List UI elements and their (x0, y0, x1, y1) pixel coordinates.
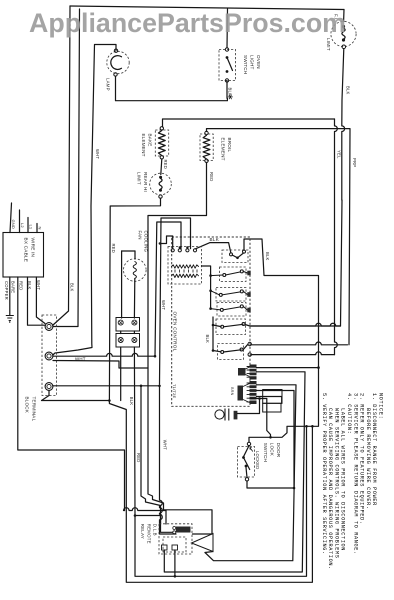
transformer lead dot a (179, 246, 181, 248)
wire terminal2 to transformer neutral (53, 353, 155, 356)
relay R3 contact left (220, 308, 223, 311)
wire top frame horizontal L1 feed (70, 6, 344, 10)
wire WHT into DLB (160, 386, 177, 534)
lamp filament arc (111, 56, 122, 70)
cooling fan left leg (121, 251, 123, 318)
control terminal W3 (248, 342, 251, 345)
door lock switch contact B (245, 465, 248, 468)
wire red broil staircase (148, 491, 212, 534)
relay R3 out stub (243, 306, 247, 310)
svg-text:YEL: YEL (337, 150, 342, 159)
svg-text:OVEN CONTROL: OVEN CONTROL (173, 312, 178, 352)
svg-text:BLK: BLK (70, 283, 75, 292)
relay R5 lead (213, 351, 221, 352)
svg-text:WHT: WHT (36, 280, 41, 290)
rear hi limit dashed envelope (150, 173, 172, 195)
svg-text:RED: RED (163, 160, 168, 169)
relay R1 contact left (223, 273, 226, 276)
fan block1 screw right (132, 320, 137, 325)
connector comb lower (250, 381, 257, 404)
wire feed to broil element (207, 129, 351, 345)
wire broil return RED (148, 163, 207, 492)
wire BLK from FI limit down (342, 49, 345, 200)
wire oven light switch feed from top (226, 9, 229, 48)
svg-text:LIMIT: LIMIT (326, 38, 331, 51)
oven light switch blade (227, 58, 233, 71)
wire W9 into block (257, 397, 282, 404)
svg-text:PRP: PRP (352, 158, 357, 167)
wire terminal2 jog wire (53, 361, 148, 369)
terminal block lug 1 outer (45, 323, 53, 331)
wire W6 (164, 372, 305, 572)
relay R2 lead (211, 291, 220, 295)
svg-text:BLK: BLK (210, 237, 220, 242)
door lock switch terminal bottom (245, 478, 248, 481)
relay R5 blade (223, 350, 241, 352)
wire RED supply (18, 277, 125, 511)
junction wht transformer (159, 242, 161, 244)
svg-text:L1: L1 (29, 225, 34, 230)
relay R2 contact right (240, 290, 243, 293)
relay R0 contact left (230, 253, 233, 256)
junction cascade switch feed (269, 436, 272, 439)
relay R0 box (222, 250, 248, 263)
relay R0 blade (232, 253, 243, 258)
wire second left vertical to terminal 1 (54, 9, 80, 327)
svg-text:BLK: BLK (205, 335, 210, 344)
wire red supply staircase (124, 508, 167, 511)
wire feed to bake element (163, 119, 335, 127)
wire terminal3 WHT line (53, 385, 160, 387)
control terminal W4 (248, 353, 251, 356)
wire rear hi limit return RED (109, 198, 160, 400)
transformer feed a WHT (160, 218, 191, 384)
cooling fan winding (133, 262, 136, 279)
DLB bottom terminal A (162, 545, 168, 550)
fan block2 screw left (118, 338, 123, 343)
bus junction 3 (209, 307, 212, 310)
lamp terminal top (114, 49, 117, 52)
wire comb bottom cascade (251, 399, 271, 438)
transformer terminal 4 (193, 249, 196, 252)
relay R0 pivot (236, 257, 239, 260)
wire BLK transformer to relay contact (196, 243, 231, 253)
relay R1 lead (211, 274, 223, 277)
svg-text:BLK: BLK (129, 397, 134, 406)
terminal block lug 2 outer (45, 352, 53, 360)
F.I limit dashed envelope (331, 21, 356, 46)
terminal block lug 2 inner (47, 354, 51, 358)
wire YEL vertical (335, 119, 338, 355)
svg-text:WHT: WHT (163, 440, 168, 450)
junction motor comb (258, 397, 261, 400)
junction t3 red (140, 385, 143, 388)
svg-text:RED: RED (111, 244, 116, 253)
relay R1 terminal pad (247, 271, 250, 276)
junction W5 (317, 366, 320, 369)
relay R4 lead (213, 325, 221, 327)
auxiliary block C (263, 403, 281, 412)
rear hi limit squiggle (159, 179, 162, 190)
relay lower bus (212, 317, 214, 351)
svg-text:T1/T2E: T1/T2E (172, 384, 177, 398)
lamp L1 dashed envelope (107, 51, 129, 73)
wire L2 lead (19, 210, 21, 233)
rear hi limit contact top (159, 176, 162, 179)
relay R4 contact right (242, 323, 245, 326)
wire bake to rear hi limit (161, 159, 162, 175)
transformer secondary coil (172, 274, 199, 277)
wire N lead (36, 224, 38, 233)
fan connector block 1 (116, 318, 140, 332)
wire lamp bottom to splice (116, 76, 228, 101)
DLB coil triangle (192, 534, 214, 552)
transformer terminal 3 (186, 249, 189, 252)
DLB terminal b (173, 531, 176, 534)
wire BLK long (134, 347, 306, 576)
motor terminal block (234, 411, 238, 420)
junction W8 (293, 487, 296, 490)
transformer terminal 1 (171, 249, 174, 252)
bake element resistor (158, 131, 165, 156)
relay R5 contact left (221, 351, 224, 354)
oven control enclosure (172, 237, 250, 406)
svg-text:AppliancePartsPros.com: AppliancePartsPros.com (29, 8, 346, 38)
relay R5 contact right (240, 348, 243, 351)
relay R4 box (216, 319, 246, 335)
junction dlb b (174, 575, 177, 578)
svg-text:BRN: BRN (230, 387, 234, 396)
broil element terminal top (205, 131, 208, 134)
door lock switch terminal top (247, 442, 250, 445)
motor brackets (225, 409, 229, 421)
wire relay contact to right bus (244, 239, 319, 424)
relay R1 out stub (243, 271, 247, 273)
svg-text:LOCKED: LOCKED (255, 451, 260, 469)
door lock switch contact A (242, 456, 245, 459)
relay R0 contact right (243, 250, 246, 253)
fan block interlink right (133, 331, 135, 334)
wire motor to comb (237, 399, 259, 414)
DLB remote relay box (159, 524, 192, 554)
relay R3 contact right (240, 305, 243, 308)
wire red supply into dlb (165, 511, 167, 525)
wire L1 lead (27, 218, 29, 233)
svg-text:BLK: BLK (27, 281, 32, 290)
wire YEL into control (251, 352, 335, 355)
relay R1 box (220, 267, 247, 282)
relay R3 blade (223, 307, 241, 310)
relay R5 box (218, 344, 244, 360)
svg-text:L2: L2 (20, 223, 25, 228)
DLB terminal a (173, 527, 176, 530)
door lock switch lead bottom (246, 467, 247, 477)
cooling fan bracket (122, 250, 135, 252)
fan block1 screw left (118, 320, 123, 325)
wire DLB terminal B down (174, 550, 176, 576)
junction blk t (134, 514, 137, 517)
cooling fan right leg (134, 251, 136, 259)
wire W5 to door switch feed (257, 367, 319, 369)
wire W8 (257, 391, 295, 489)
junction t3 wht (158, 385, 161, 388)
rear hi limit contact bottom (159, 189, 162, 192)
ground symbol (6, 316, 14, 324)
oven light switch box (219, 50, 236, 81)
wire DLB coil to loop (205, 552, 213, 553)
terminal block box (42, 315, 57, 396)
door lock switch lead top (244, 446, 249, 457)
svg-text:WHT: WHT (161, 300, 166, 310)
svg-text:BLK: BLK (265, 252, 270, 261)
broil element box (200, 134, 213, 161)
oven light switch contact B (226, 70, 229, 73)
cooling fan bottom leg (133, 279, 135, 319)
broil element terminal bottom (205, 159, 208, 162)
relay R3 terminal pad (247, 308, 250, 313)
relay R1 blade (226, 272, 241, 275)
lower bus junction 2 (212, 349, 215, 352)
wire terminal3 down branch (42, 391, 110, 401)
wire W7 (205, 385, 296, 561)
bake element terminal bottom (160, 156, 163, 159)
wire-in-bx-cable box (3, 233, 44, 278)
bus junction 2 (209, 289, 212, 292)
FI limit bimetal squiggle (342, 28, 345, 39)
relay R5 out (243, 344, 248, 350)
FI limit terminal bottom (342, 45, 346, 49)
relay R2 box (216, 288, 246, 302)
relay R4 out (245, 323, 341, 326)
svg-text:RED: RED (19, 281, 24, 290)
terminal block lug 1 inner (47, 324, 51, 328)
svg-text:WHT: WHT (95, 149, 100, 159)
relay R2 blade (222, 292, 241, 295)
wire to FI limit (343, 10, 345, 22)
wire left vertical BLK L1 drop to terminal block (53, 6, 70, 325)
DLB bottom terminal B (172, 545, 178, 550)
relay R4 contact left (221, 325, 224, 328)
wire blk t branch (135, 516, 173, 533)
junction blk loop top (305, 425, 308, 428)
relay R3 lead (211, 309, 221, 310)
broil element resistor (203, 135, 210, 159)
connector plug upper (238, 368, 246, 376)
junction t2 neutral (154, 355, 157, 358)
wire GND lead (10, 203, 12, 233)
DLB resistor element (176, 527, 191, 533)
svg-text:RED: RED (209, 172, 214, 181)
wire bare copper ground lead (9, 277, 11, 316)
door lock motor (215, 410, 224, 419)
relay R3 box (217, 303, 246, 317)
transformer primary coil (172, 265, 199, 268)
wire t3 red staircase (141, 386, 161, 524)
wire door switch bottom (247, 481, 294, 488)
junction outer loop top (311, 425, 314, 428)
connector plug lower (238, 386, 244, 401)
fan block2 screw right (132, 338, 137, 343)
transformer feed stub 1 (160, 236, 173, 249)
oven light switch terminal top (225, 48, 228, 51)
wire red jog to loop (109, 401, 312, 583)
wire PRP into control (251, 342, 348, 345)
transformer feed b neutral (155, 222, 181, 356)
transformer terminal 2 (178, 249, 181, 252)
locked arrow (250, 447, 253, 451)
splice asterisk (228, 95, 233, 100)
wire WHT supply (36, 277, 45, 324)
connector comb upper (250, 365, 257, 380)
transformer core hatch (175, 270, 197, 273)
lamp terminal bottom (114, 73, 117, 76)
door lock switch blade (244, 458, 250, 470)
svg-text:RED: RED (136, 453, 141, 462)
rear hi limit terminal bottom (159, 195, 162, 198)
fan connector block 2 (116, 334, 140, 348)
wire BLK lower half to W2 (250, 200, 342, 326)
bake element terminal top (160, 127, 163, 130)
auxiliary block B (263, 390, 282, 404)
fan block2 left down (120, 347, 122, 401)
FI limit contact bottom (342, 38, 345, 41)
transformer box (168, 247, 202, 285)
FI limit contact top (342, 25, 345, 28)
lower bus junction 1 (212, 324, 215, 327)
bake element box (155, 130, 168, 156)
wire BLK supply (28, 277, 46, 325)
svg-text:LAMP: LAMP (106, 78, 111, 91)
fan block interlink left (120, 331, 122, 334)
oven light switch contact A (226, 56, 229, 59)
relay R4 blade (223, 324, 243, 327)
junction red loop (108, 399, 111, 402)
svg-text:BLK: BLK (346, 86, 351, 95)
relay R2 out stub (243, 291, 247, 294)
terminal block lug 3 outer (45, 383, 53, 391)
cooling fan dashed envelope (124, 259, 147, 282)
wire BLK switch to splice (226, 81, 228, 99)
relay R1 contact right (240, 270, 243, 273)
wire door switch feed (249, 424, 319, 442)
oven light switch terminal bottom (225, 79, 228, 82)
DLB inner box (163, 537, 186, 552)
relay R2 terminal pad (247, 292, 250, 297)
door lock switch box (238, 447, 255, 478)
bus junction 1 (209, 274, 212, 277)
relay R2 contact left (219, 293, 222, 296)
svg-text:N: N (38, 227, 43, 230)
svg-text:GND: GND (11, 220, 16, 230)
relay bus feed (202, 266, 211, 309)
wire lamp top feed (53, 45, 116, 356)
transformer lead dot b (186, 246, 188, 248)
terminal block lug 3 inner (47, 384, 51, 388)
